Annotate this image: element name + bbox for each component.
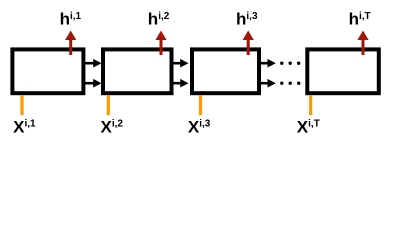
output arrow h4 (dark red)	[357, 31, 368, 56]
input tick X3 (orange)	[199, 95, 202, 115]
input tick X2 (orange)	[107, 95, 110, 115]
svg-text:hi,T: hi,T	[349, 10, 371, 29]
input tick X4 (orange)	[309, 95, 312, 115]
svg-text:Xi,T: Xi,T	[297, 118, 320, 137]
RNN cell box 4	[307, 49, 379, 93]
svg-text:Xi,3: Xi,3	[188, 118, 211, 137]
RNN cell box 2	[103, 49, 172, 93]
RNN cell box 1	[12, 49, 83, 93]
wire arrow box3 to dots upper	[259, 59, 276, 68]
input tick X1 (orange)	[20, 95, 23, 115]
svg-text:hi,1: hi,1	[60, 10, 82, 29]
ellipsis dots lower row	[280, 82, 300, 85]
svg-text:Xi,2: Xi,2	[101, 118, 124, 137]
output arrow h2 (dark red)	[155, 31, 166, 56]
output arrow h1 (dark red)	[65, 31, 76, 56]
wire arrow box1 to box2 lower	[85, 79, 102, 88]
ellipsis dots upper row	[280, 62, 300, 65]
svg-text:Xi,1: Xi,1	[13, 118, 36, 137]
svg-text:hi,2: hi,2	[148, 10, 170, 29]
wire arrow box3 to dots lower	[259, 79, 276, 88]
wire arrow box2 to box3 lower	[171, 79, 189, 88]
wire arrow box1 to box2 upper	[85, 59, 102, 68]
wire arrow box2 to box3 upper	[171, 59, 189, 68]
output arrow h3 (dark red)	[243, 31, 254, 56]
RNN cell box 3	[192, 49, 259, 93]
svg-text:hi,3: hi,3	[236, 10, 258, 29]
